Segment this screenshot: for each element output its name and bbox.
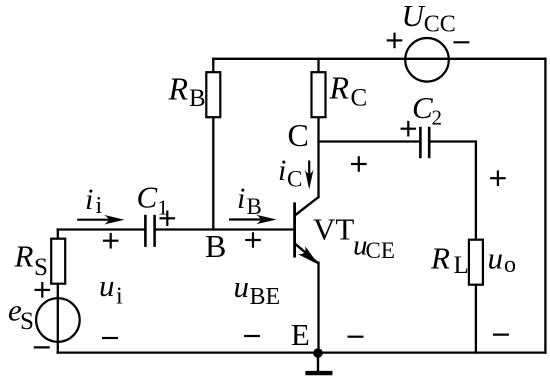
svg-text:i: i <box>278 154 286 187</box>
plus u_i <box>103 233 119 249</box>
svg-text:C: C <box>287 167 302 192</box>
minus u_o <box>493 334 509 336</box>
svg-text:o: o <box>504 252 516 278</box>
minus eS bottom <box>34 346 50 348</box>
svg-text:B: B <box>247 194 262 219</box>
capacitor C1 plates <box>145 215 154 247</box>
wire C2 to RL <box>430 142 476 353</box>
minus u_CE <box>348 336 364 338</box>
wire node C to C2 <box>319 140 420 142</box>
resistor RL <box>469 240 483 285</box>
transistor VT body <box>295 197 319 263</box>
ground <box>305 353 332 373</box>
svg-text:E: E <box>291 317 310 352</box>
svg-text:C: C <box>412 90 433 125</box>
svg-text:B: B <box>189 85 206 112</box>
plus u_CE <box>351 156 367 172</box>
minus u_BE <box>244 335 260 337</box>
svg-text:1: 1 <box>158 196 169 220</box>
svg-text:S: S <box>34 254 48 281</box>
wire RB branch <box>212 59 214 230</box>
svg-text:CC: CC <box>424 11 456 37</box>
transistor emitter arrow <box>300 248 318 264</box>
svg-text:L: L <box>454 252 469 279</box>
svg-text:VT: VT <box>313 211 354 246</box>
arrow i_C <box>305 161 314 190</box>
svg-text:u: u <box>99 268 115 303</box>
source UCC circle <box>405 38 449 82</box>
wire emitter vertical <box>317 263 319 353</box>
svg-text:2: 2 <box>432 106 443 130</box>
svg-text:R: R <box>168 70 189 106</box>
svg-text:CE: CE <box>366 238 395 263</box>
svg-text:i: i <box>116 283 123 309</box>
svg-text:i: i <box>96 193 103 219</box>
junction dot E <box>313 348 323 358</box>
wire top rail <box>213 58 545 60</box>
plus u_o <box>490 170 506 186</box>
plus u_BE <box>245 232 261 248</box>
arrow i_B <box>229 215 277 225</box>
svg-text:u: u <box>488 240 504 275</box>
wire input left horizontal <box>58 228 144 230</box>
svg-text:R: R <box>430 240 450 275</box>
resistor RB <box>206 72 220 117</box>
plus UCC left <box>387 33 403 49</box>
svg-text:i: i <box>237 182 245 215</box>
source eS circle <box>36 298 80 342</box>
svg-text:BE: BE <box>250 284 281 310</box>
svg-text:C: C <box>288 117 309 153</box>
plus C2 <box>401 121 417 137</box>
minus UCC right <box>453 41 469 43</box>
svg-text:C: C <box>137 179 158 214</box>
wire C1 to base <box>156 228 295 230</box>
resistor RS <box>51 239 65 284</box>
svg-text:R: R <box>329 70 350 106</box>
minus u_i <box>102 337 118 339</box>
arrow i_i <box>77 215 124 225</box>
wire left vertical through RS eS <box>57 230 59 353</box>
svg-text:C: C <box>351 85 368 112</box>
svg-text:u: u <box>234 269 250 304</box>
wire RC branch <box>317 59 319 198</box>
plus C1 <box>160 211 176 227</box>
plus eS top <box>35 282 51 298</box>
svg-text:B: B <box>205 228 226 264</box>
wire right rail <box>544 59 546 353</box>
svg-text:S: S <box>20 308 34 335</box>
capacitor C2 plates <box>420 127 429 158</box>
wire bottom rail <box>58 351 546 353</box>
svg-text:R: R <box>14 239 34 274</box>
resistor RC <box>312 72 326 117</box>
svg-text:i: i <box>85 183 93 216</box>
